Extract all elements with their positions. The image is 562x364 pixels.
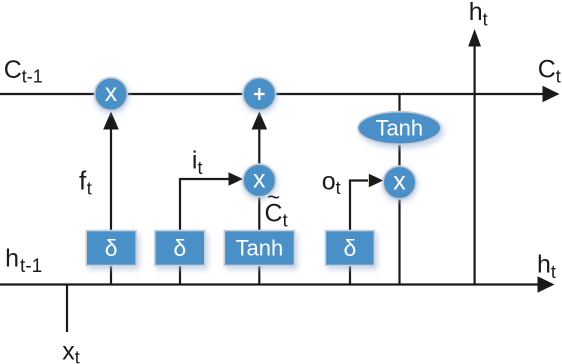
svg-text:it: it [192,147,203,179]
wire delta3 to h line [349,265,351,285]
wire cell-state branch through Tanh ellipse and X3 down to h line [398,94,400,285]
arrowhead into plus [252,112,268,130]
arrowhead into X1 [103,112,119,130]
wire input-gate elbow (delta2 up then right into X2) [180,179,230,231]
svg-text:Tanh: Tanh [375,116,423,141]
arrowhead Ct right [543,86,560,102]
wire xt input stub [66,285,68,333]
op-amp plus node [243,78,276,111]
svg-text:δ: δ [173,235,186,261]
svg-text:Ct-1: Ct-1 [4,56,43,87]
svg-text:ht: ht [469,0,488,29]
wire hidden-state line ht-1 to ht [0,283,540,285]
Tanh box [224,231,294,266]
wire candidate vertical (Tanh box through X2 to plus) [258,113,260,231]
op-amp X1 multiply node [95,78,128,111]
wire delta2 to h line [179,265,181,285]
sigmoid box delta2 [155,231,205,266]
svg-text:x: x [393,167,406,195]
wire output-gate elbow (delta3 up then right into X3) [350,181,368,232]
wire Tanh box to h line [258,265,260,285]
svg-text:ht: ht [537,251,556,283]
op-amp X2 multiply node [243,164,276,197]
sigmoid box delta1 [86,231,136,266]
arrowhead ht up [468,29,481,47]
wire delta1 to h line [110,265,112,285]
arrowhead ht right [538,276,555,292]
wire cell-state line Ct-1 to Ct [0,93,545,95]
op-amp X3 multiply node [383,166,416,199]
arrowhead into X2 [229,172,244,186]
svg-text:δ: δ [343,235,356,261]
svg-text:ht-1: ht-1 [5,245,42,278]
svg-text:ft: ft [79,166,92,199]
Tanh ellipse [358,112,441,145]
svg-text:x: x [253,165,266,193]
svg-text:~: ~ [267,185,280,210]
wire forget-gate vertical (delta1 to X1) [110,113,112,231]
sigmoid box delta3 [325,231,374,266]
svg-text:x: x [105,79,118,107]
svg-text:Tanh: Tanh [236,236,284,261]
wire output branch up to ht [474,44,476,285]
arrowhead into X3 [369,174,384,188]
svg-text:Ct: Ct [538,56,561,87]
svg-text:δ: δ [105,235,118,261]
svg-text:ot: ot [322,168,341,199]
svg-text:xt: xt [62,338,80,364]
